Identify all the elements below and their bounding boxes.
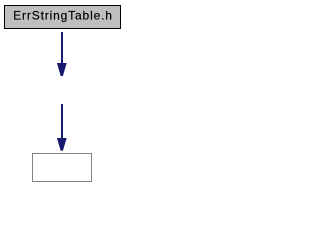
arrowhead 1	[57, 63, 67, 76]
svg-text:ErrStringTable.h: ErrStringTable.h	[13, 9, 113, 23]
node: included file (empty box, grey border)	[33, 154, 92, 182]
node ErrStringTable.h (current file, grey filled box)	[5, 6, 121, 29]
wire: include arrow 1 shaft	[61, 32, 63, 64]
wire: include arrow 2 shaft	[61, 104, 63, 139]
arrowhead 2	[57, 138, 67, 151]
